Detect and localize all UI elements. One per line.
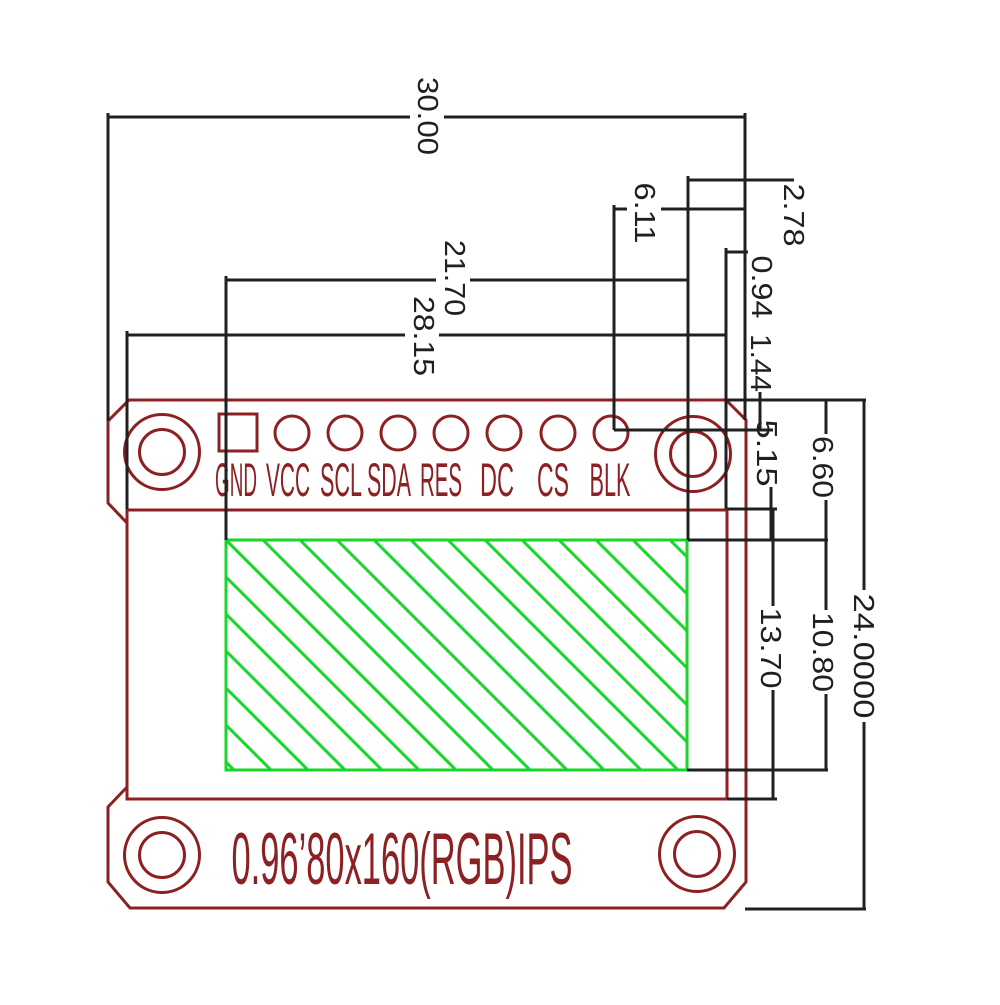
extension line left board edge x=108 [107,113,110,421]
svg-text:6.11: 6.11 [628,183,660,244]
dim line 30.00 right segment [444,116,745,119]
dim line 6.60 lower segment [825,500,828,540]
dim line 28.15 left segment [127,334,405,337]
extension line display top y=540 [688,539,828,542]
svg-text:GND: GND [215,453,257,506]
mounting hole top-right [656,417,731,492]
dim line 21.70 left segment [226,279,436,282]
dim line 24.0000 lower segment [863,722,866,909]
svg-text:BLK: BLK [590,453,631,506]
mounting hole top-left [125,415,200,490]
mounting hole bottom-right [660,817,735,892]
svg-text:SCL: SCL [320,453,362,506]
dim line 10.80 lower segment [825,694,828,770]
dim line 5.15 [770,487,773,540]
dim line 13.70 lower segment [772,690,775,799]
svg-text:24.0000: 24.0000 [847,594,879,719]
extension line glass top y=509 [727,508,777,511]
svg-text:13.70: 13.70 [754,608,786,689]
svg-text:0.96’80x160(RGB)IPS: 0.96’80x160(RGB)IPS [232,819,573,900]
extension line right board edge x=745 [744,113,747,420]
svg-text:0.94: 0.94 [745,256,777,319]
pin pad RES (round) [434,416,468,450]
svg-text:SDA: SDA [367,453,411,506]
svg-text:CS: CS [537,453,569,506]
extension line BLK pin x=614 [613,205,616,430]
dim line 1.44 [759,392,762,430]
svg-text:VCC: VCC [266,453,310,506]
dim line 13.70 upper segment [772,510,775,606]
svg-text:1.44: 1.44 [744,334,776,392]
dim line 30.00 left segment [108,116,410,119]
dim line 24.0000 upper segment [863,400,866,590]
pin pad GND (square) [219,414,257,451]
extension line pin row center y=430 [614,429,773,432]
pin pad DC (round) [487,416,521,450]
extension line glass bottom y=799 [727,798,777,801]
extension line board top y=400 [726,399,866,402]
pin pad VCC (round) [275,416,309,450]
dim line 2.78 [688,179,794,182]
dim line 10.80 upper segment [825,540,828,610]
dim line 6.60 upper segment [825,400,828,434]
svg-text:30.00: 30.00 [411,77,443,155]
extension line glass right edge x=726 [725,248,728,509]
pin pad SDA (round) [381,416,415,450]
pin pad SCL (round) [328,416,362,450]
svg-text:28.15: 28.15 [407,296,439,376]
extension line glass left edge x=127 [126,331,129,509]
dim line 6.11 left segment [614,208,627,211]
display active area (green hatched) [226,540,687,770]
mounting hole bottom-left [125,818,200,893]
PCB board outline [108,400,746,908]
svg-text:RES: RES [420,453,462,506]
dim line 0.94 [725,251,748,254]
display glass module outline [127,510,727,799]
extension line display left edge x=226 [225,276,228,540]
extension line display bottom y=770 [687,769,828,772]
extension line board bottom y=909 [745,908,866,911]
pin pad BLK (round) [594,416,628,450]
extension line display right edge x=688 [687,176,690,540]
svg-text:21.70: 21.70 [438,240,470,316]
svg-text:6.60: 6.60 [806,436,838,498]
dim line 28.15 right segment [439,334,725,337]
dim line 6.11 right segment [661,208,745,211]
svg-text:10.80: 10.80 [806,612,838,692]
svg-text:DC: DC [480,453,514,506]
dim line 21.70 right segment [470,279,688,282]
pin pad CS (round) [541,416,575,450]
svg-text:5.15: 5.15 [750,420,782,487]
svg-text:2.78: 2.78 [777,184,809,247]
